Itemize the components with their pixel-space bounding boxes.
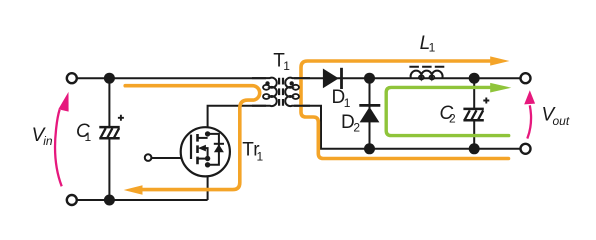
secondary crossover loops xyxy=(292,85,299,90)
svg-text:in: in xyxy=(43,134,53,148)
wire secondary bottom lead xyxy=(294,106,526,149)
wire left vertical C1 branch lower xyxy=(108,138,110,200)
primary phase dot xyxy=(265,81,269,85)
diode D2 xyxy=(360,107,380,123)
wire D2 branch xyxy=(369,78,371,149)
primary crossover loops xyxy=(263,85,270,90)
Vin arrow magenta xyxy=(55,110,62,187)
wire C2 branch lower xyxy=(473,120,475,149)
svg-text:1: 1 xyxy=(283,59,290,73)
terminal output bottom xyxy=(521,144,531,154)
orange secondary current loop with arrow xyxy=(301,61,509,159)
svg-text:1: 1 xyxy=(85,130,92,144)
green arrowhead xyxy=(490,83,511,93)
capacitor C2 xyxy=(463,98,489,121)
wire C2 branch upper xyxy=(473,78,475,109)
green freewheel loop with arrow xyxy=(386,87,509,135)
orange arrowhead top-right xyxy=(490,56,509,65)
svg-text:2: 2 xyxy=(353,120,360,134)
Vout arrow magenta xyxy=(527,105,531,138)
terminal input top xyxy=(67,73,77,83)
gate terminal xyxy=(145,154,152,161)
inductor core dashed xyxy=(409,66,445,68)
MOSFET Q Tr1 xyxy=(181,127,230,176)
junction dot D2 anode xyxy=(364,143,375,154)
wire left vertical C1 branch upper xyxy=(108,78,110,127)
wire bottom-left rail xyxy=(72,199,208,201)
terminal output top xyxy=(521,73,531,83)
inductor L1 crossover loops xyxy=(419,75,424,79)
wire primary bottom lead and MOSFET drain xyxy=(208,106,266,138)
transformer T1 secondary winding xyxy=(285,78,310,106)
transformer T1 primary winding xyxy=(252,78,277,106)
wire MOSFET source to bottom rail xyxy=(207,159,209,201)
diode D1 xyxy=(323,69,339,89)
secondary phase dot xyxy=(290,81,294,85)
junction dot after L1 xyxy=(469,73,480,84)
junction dot input bottom xyxy=(104,195,115,206)
svg-text:2: 2 xyxy=(449,112,456,126)
svg-text:1: 1 xyxy=(429,40,436,54)
junction dot D1 cathode xyxy=(364,73,375,84)
junction dot C2 bottom xyxy=(469,143,480,154)
wire gate lead xyxy=(151,157,191,159)
orange arrowhead bottom-left xyxy=(124,185,143,194)
junction dot input top xyxy=(104,73,115,84)
svg-text:out: out xyxy=(553,114,570,128)
terminal input bottom xyxy=(67,195,77,205)
orange primary current loop with arrow xyxy=(125,86,260,190)
wire top-left rail xyxy=(72,77,266,79)
svg-text:1: 1 xyxy=(257,150,264,164)
wire secondary top rail xyxy=(294,77,526,79)
svg-text:1: 1 xyxy=(344,96,351,110)
inductor L1 xyxy=(411,71,443,79)
capacitor C1 xyxy=(99,115,124,138)
transformer core xyxy=(279,78,283,106)
